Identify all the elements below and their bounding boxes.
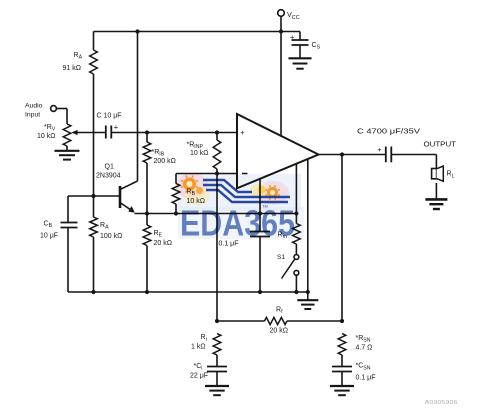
svg-text:20 kΩ: 20 kΩ	[270, 328, 288, 335]
svg-text:CS: CS	[312, 42, 321, 51]
svg-text:A0905906: A0905906	[425, 400, 458, 406]
svg-text:Q1: Q1	[105, 163, 114, 170]
svg-text:+: +	[377, 145, 382, 154]
svg-text:+: +	[240, 128, 245, 137]
svg-text:+: +	[114, 122, 119, 131]
svg-text:S1: S1	[277, 254, 285, 261]
svg-text:100 kΩ: 100 kΩ	[100, 233, 122, 240]
svg-text:*RIB: *RIB	[152, 149, 165, 158]
svg-text:OUTPUT: OUTPUT	[424, 141, 457, 148]
svg-text:RA: RA	[74, 52, 83, 61]
svg-text:1 kΩ: 1 kΩ	[191, 344, 206, 351]
svg-text:*RSN: *RSN	[356, 335, 371, 344]
svg-text:*RV: *RV	[44, 124, 56, 133]
svg-text:*CSN: *CSN	[356, 363, 371, 372]
svg-text:Ri: Ri	[201, 334, 207, 343]
svg-text:10 kΩ: 10 kΩ	[190, 150, 208, 157]
svg-text:22 μF: 22 μF	[190, 373, 208, 380]
svg-text:EDA365: EDA365	[180, 203, 295, 244]
svg-text:RE: RE	[154, 230, 163, 239]
svg-text:10 kΩ: 10 kΩ	[37, 133, 55, 140]
svg-text:C 4700 μF/35V: C 4700 μF/35V	[357, 128, 420, 135]
svg-text:Audio: Audio	[25, 102, 43, 109]
svg-text:20 kΩ: 20 kΩ	[154, 240, 172, 247]
svg-text:4.7 Ω: 4.7 Ω	[356, 344, 373, 351]
svg-text:VCC: VCC	[287, 10, 300, 21]
svg-text:10 μF: 10 μF	[40, 232, 58, 239]
svg-text:RL: RL	[447, 171, 455, 180]
svg-text:*RINP: *RINP	[187, 141, 204, 150]
svg-text:*Ci: *Ci	[194, 363, 203, 372]
svg-text:RA: RA	[100, 222, 109, 231]
svg-text:Input: Input	[25, 111, 40, 118]
svg-text:+: +	[290, 32, 295, 41]
svg-text:91 kΩ: 91 kΩ	[63, 65, 81, 72]
svg-text:2N3904: 2N3904	[96, 172, 121, 179]
svg-text:Rf: Rf	[276, 307, 283, 316]
svg-text:C 10 μF: C 10 μF	[97, 113, 122, 120]
svg-text:CB: CB	[44, 221, 53, 230]
svg-text:200 kΩ: 200 kΩ	[154, 158, 176, 165]
svg-text:0.1 μF: 0.1 μF	[356, 375, 376, 382]
